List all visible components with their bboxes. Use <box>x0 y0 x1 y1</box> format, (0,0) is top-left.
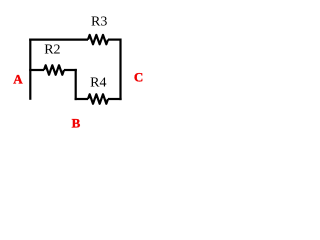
resistor R4 <box>88 94 108 103</box>
svg-text:R2: R2 <box>44 43 60 58</box>
resistor R2 <box>44 65 64 74</box>
wire: R2 right lead <box>64 69 77 71</box>
resistor R3 <box>88 35 108 44</box>
svg-text:R3: R3 <box>91 14 107 29</box>
wire: right vertical at node C <box>119 39 121 101</box>
wire: R3 right lead to top-right corner <box>108 38 121 40</box>
wire: top horizontal from top-left corner to R3 left lead <box>29 38 88 40</box>
svg-text:B: B <box>72 115 81 130</box>
wire: vertical from R2 output down to node B <box>75 69 77 100</box>
svg-text:C: C <box>134 70 143 85</box>
wire: left vertical branch at node A <box>29 39 31 100</box>
wire: R2 left lead from node A branch <box>29 69 44 71</box>
wire: bottom-right, R4 right lead to bottom-right corner <box>108 98 122 100</box>
svg-text:A: A <box>13 71 23 86</box>
svg-text:R4: R4 <box>90 75 106 90</box>
wire: node B corner to R4 left lead <box>75 98 88 100</box>
